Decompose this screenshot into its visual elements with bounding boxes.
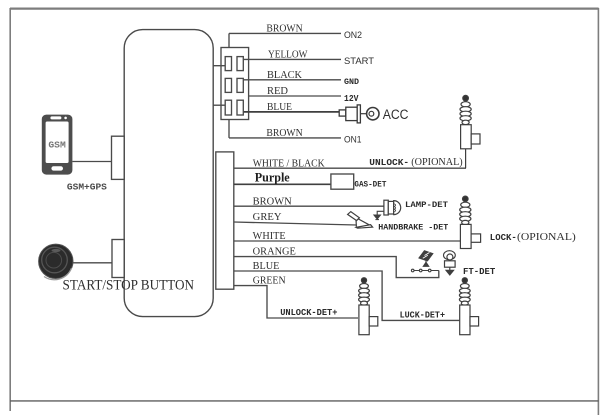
svg-text:LUCK-DET+: LUCK-DET+ [400,311,445,321]
lamp icon [384,200,401,215]
svg-text:GND: GND [344,78,359,87]
svg-text:UNLOCK-: UNLOCK- [369,157,409,168]
svg-text:ACC: ACC [383,107,409,122]
wire WHITE/BLACK unlock [234,167,466,169]
svg-text:YELLOW: YELLOW [268,50,308,61]
wire: unit to J1 pin5 [213,104,225,106]
svg-text:RED: RED [267,86,288,97]
main control unit U1 [124,30,213,317]
bracket: GSM connector on unit [112,136,125,179]
shock sensor icon (ft-det) [411,251,439,272]
svg-text:12V: 12V [344,93,359,104]
svg-text:(OPIONAL): (OPIONAL) [517,232,576,243]
connector J2 (8-pin, lower) [216,152,234,289]
svg-text:BLACK: BLACK [267,70,303,81]
wire BLUE luck-det [234,271,460,320]
start/stop button S1 [39,244,73,280]
connector J1 (6-pin, top) [221,48,249,120]
wire BLUE ACC [244,111,340,113]
wire GREEN unlock-det [234,286,358,318]
wire BLACK GND [244,79,341,81]
svg-text:BROWN: BROWN [253,196,292,207]
actuator M4 luck-det (bottom right) [459,278,478,335]
wire BROWN ON1 [229,120,341,138]
svg-text:GREEN: GREEN [253,276,286,287]
wire: phone to unit [72,161,111,163]
wire BROWN ON2 [229,33,341,47]
wire: button to unit [72,262,112,264]
svg-text:GSM: GSM [48,139,66,150]
svg-text:BLUE: BLUE [267,102,292,113]
wire YELLOW START [244,58,341,60]
person/sensor icon (ft-det) [444,251,456,275]
svg-text:WHITE / BLACK: WHITE / BLACK [253,158,326,169]
bracket: button connector on unit [112,240,124,278]
svg-text:GREY: GREY [253,212,282,223]
ground below lamp [374,211,384,219]
svg-text:START: START [344,56,374,67]
svg-text:BLUE: BLUE [253,261,280,272]
handbrake icon [348,212,373,229]
wire WHITE lock [234,240,462,242]
wire: unit to J1 pin1 [213,65,225,67]
wire BROWN lamp [234,205,384,207]
svg-text:ON1: ON1 [344,135,362,146]
svg-text:LOCK-: LOCK- [490,232,517,243]
svg-text:(OPIONAL): (OPIONAL) [411,157,462,168]
wire PURPLE gas [234,183,331,185]
svg-text:WHITE: WHITE [253,231,286,242]
svg-text:GAS-DET: GAS-DET [354,180,386,190]
gas detector box [331,174,354,189]
actuator M3 unlock-det (bottom) [359,278,378,335]
svg-text:BROWN: BROWN [266,24,302,35]
svg-text:ON2: ON2 [344,30,362,41]
wire RED 12V [249,95,341,97]
svg-text:ORANGE: ORANGE [253,247,296,258]
svg-text:GSM+GPS: GSM+GPS [67,182,107,193]
svg-text:LAMP-DET: LAMP-DET [405,200,448,210]
actuator M1 unlock (top right) [460,95,480,168]
actuator M2 lock (right) [460,196,481,248]
svg-text:FT-DET: FT-DET [463,267,496,277]
svg-text:START/STOP BUTTON: START/STOP BUTTON [63,277,195,293]
svg-text:BROWN: BROWN [266,128,302,139]
GSM phone icon [42,115,73,175]
svg-text:Purple: Purple [255,170,290,184]
ignition key icon [339,105,379,123]
wire GREY handbrake [234,222,357,225]
wire ORANGE ft-det [234,257,439,278]
svg-text:HANDBRAKE -DET: HANDBRAKE -DET [378,223,448,233]
svg-text:UNLOCK-DET+: UNLOCK-DET+ [280,308,337,318]
